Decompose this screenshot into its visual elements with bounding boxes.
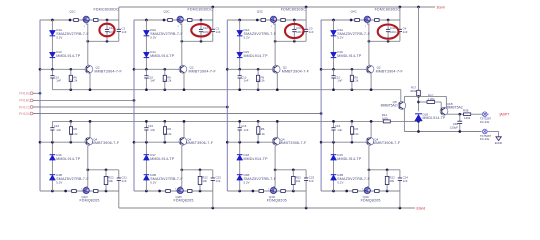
capacitor Cb top block 2 [211, 29, 215, 31]
svg-text:R6: R6 [355, 127, 359, 131]
resistor R26 block 1 [70, 121, 72, 126]
junction node B [417, 101, 420, 104]
svg-text:1nF: 1nF [337, 128, 342, 132]
junction 1 [51, 68, 54, 71]
wire cap box bottom 4 [369, 40, 400, 42]
capacitor Ca top block 3 (highlighted) [293, 20, 295, 29]
wire cap box bottom 2 [182, 40, 213, 42]
svg-text:100n: 100n [390, 30, 397, 34]
junction 3 [257, 141, 260, 144]
wire diode column bottom 4 [333, 142, 335, 155]
junction cap Ca top 1 [106, 19, 109, 22]
testpoint TP2 [483, 129, 489, 134]
wire emitter vertical top 1 [89, 73, 91, 90]
junction base wire bottom block 3 [226, 141, 229, 144]
wire base top block 1 [40, 68, 87, 70]
svg-text:MMDL914-TP: MMDL914-TP [56, 54, 81, 58]
diode D3A zener SMAZ5V2 [237, 30, 243, 35]
junction upper rail C10 3 [238, 88, 241, 91]
junction emitter on rail 4 [370, 88, 373, 91]
capacitor C10 block 2 [145, 69, 147, 75]
junction 1 [51, 190, 54, 193]
capacitor C10 block 4 [333, 69, 335, 75]
resistor R14 [383, 120, 390, 123]
resistor R22 bottom block 2 [199, 170, 201, 177]
junction 2 [145, 141, 148, 144]
wire diode column bottom 2 [145, 142, 147, 155]
svg-text:56.2k: 56.2k [70, 79, 78, 83]
junction rail R6 1 [69, 88, 72, 91]
svg-text:DC-49s: DC-49s [480, 137, 490, 141]
diode D18 MMDL914 [415, 114, 423, 121]
resistor R26 block 3 [257, 121, 259, 126]
junction C48 top [458, 113, 461, 116]
wire source rail bottom block 3 [227, 190, 306, 192]
svg-text:R6: R6 [261, 127, 265, 131]
resistor R26 block 2 [164, 121, 166, 126]
junction gate crossing 3 [274, 40, 277, 43]
diode D1B zener bottom [49, 175, 55, 180]
transistor Q2 NPN MMBT3904 block 3 [272, 65, 280, 73]
capacitor Ca top block 4 (highlighted) [387, 20, 389, 29]
svg-text:1nF: 1nF [244, 79, 249, 83]
junction 1 [64, 190, 67, 193]
diode D13 MMDL914 [49, 52, 55, 57]
resistor series left bottom 1 [72, 190, 77, 193]
junction rail R6 4 [351, 88, 354, 91]
transistor Q4 PNP MMBT3906 block 4 [366, 137, 374, 145]
junction base wire bottom block 4 [320, 141, 323, 144]
svg-text:MMDL914-TP: MMDL914-TP [423, 116, 446, 120]
transistor Q1D NMOS FDMQ8205 [83, 187, 89, 193]
svg-text:1nF: 1nF [56, 128, 61, 132]
svg-text:1nF: 1nF [337, 79, 342, 83]
junction diode col 2 [145, 19, 148, 22]
capacitor Ca top block 1 (highlighted) [106, 20, 108, 29]
wire collector/gate vertical bottom 2 [181, 146, 183, 187]
capacitor C10 block 1 [51, 69, 53, 75]
resistor R67 [427, 101, 435, 104]
wire drain rail top block 1 [40, 19, 119, 21]
svg-text:PH1B1: PH1B1 [19, 99, 30, 103]
svg-text:10k: 10k [389, 179, 394, 183]
wire emitter vertical top 3 [276, 73, 278, 90]
junction base wire top block 1 [39, 68, 42, 71]
wire source rail bottom block 2 [134, 190, 213, 192]
svg-text:3Gvh: 3Gvh [437, 5, 445, 9]
port PH1C1 [30, 106, 35, 109]
wire collector/gate vertical bottom 4 [368, 146, 370, 187]
svg-text:10k: 10k [108, 179, 113, 183]
junction emitter on lower rail 1 [89, 120, 92, 123]
junction Ca bottom 1 [106, 40, 109, 43]
wire node B to R67 [419, 101, 428, 103]
wire drain rail top block 2 [134, 19, 213, 21]
wire mosfet gate stub 2 [179, 23, 181, 25]
capacitor Cb bottom block 2 [211, 178, 215, 180]
transistor Q4 PNP MMBT3906 block 2 [179, 137, 187, 145]
svg-text:MMBT3906-7-F: MMBT3906-7-F [186, 141, 214, 145]
diode D4A zener SMAZ5V2 [331, 30, 337, 35]
svg-text:MMBT5A2: MMBT5A2 [381, 104, 397, 108]
wire base bottom block 2 [134, 141, 181, 143]
svg-text:MMBT3906-7-F: MMBT3906-7-F [279, 141, 307, 145]
wire rail corner to Q8 base [400, 90, 402, 102]
diode D4B zener bottom [331, 175, 337, 180]
wire mosfet gate stub bottom 4 [366, 186, 368, 189]
junction 2 [145, 68, 148, 71]
diode D1A zener SMAZ5V2 [49, 30, 55, 35]
wire TP2 to ground [489, 131, 499, 133]
wire gate/collector vertical 1 [87, 23, 89, 64]
capacitor Cb bottom block 3 [304, 178, 308, 180]
junction 3 [292, 168, 295, 171]
junction Ca bottom block 2 [199, 190, 202, 193]
svg-text:56.2k: 56.2k [70, 132, 78, 136]
transistor Q1B NPN MMBT5A2 [440, 107, 448, 115]
junction on VCC bus [211, 6, 214, 9]
red highlight ellipse 4 [378, 25, 399, 39]
svg-text:R6: R6 [73, 127, 77, 131]
junction gate crossing bottom 1 [86, 168, 89, 171]
wire diode column top 4 [333, 20, 335, 31]
svg-text:FDMQ8205: FDMQ8205 [80, 199, 100, 203]
capacitor Ca top block 2 (highlighted) [200, 20, 202, 29]
junction row 3 [226, 106, 229, 109]
diode D14 MMDL914 [143, 52, 149, 57]
junction cap Ca top 2 [200, 19, 203, 22]
wire left vertical column 3 [226, 20, 228, 191]
junction upper rail C10 2 [145, 88, 148, 91]
wire gate/collector vertical 2 [181, 23, 183, 64]
wire Q1B emitter [446, 113, 463, 115]
junction 3 [257, 68, 260, 71]
junction gate crossing 1 [86, 40, 89, 43]
svg-text:100n: 100n [296, 30, 303, 34]
wire drain rail top block 3 [227, 19, 306, 21]
capacitor C10 block 3 [239, 69, 241, 75]
junction 1 [105, 168, 108, 171]
svg-text:MMBT3904-7-F: MMBT3904-7-F [95, 69, 123, 73]
net rail lower (base feed) [52, 120, 383, 122]
junction upper rail C10 4 [332, 88, 335, 91]
junction lower rail R26 3 [257, 120, 260, 123]
resistor R6 block 2 [164, 69, 166, 75]
resistor R6 block 3 [257, 69, 259, 75]
junction base wire top block 3 [226, 68, 229, 71]
red highlight ellipse 2 [191, 24, 210, 36]
svg-text:Q3C: Q3C [257, 9, 264, 13]
junction 2 [158, 190, 161, 193]
junction 1 [69, 68, 72, 71]
transistor Q4D NMOS FDMQ8205 [364, 187, 371, 193]
junction lower rail C16 2 [145, 120, 148, 123]
wire collector/gate vertical bottom 3 [274, 146, 276, 187]
junction 3 [238, 68, 241, 71]
junction base wire bottom block 1 [39, 141, 42, 144]
svg-text:56.2k: 56.2k [258, 132, 266, 136]
svg-text:120pF: 120pF [450, 125, 458, 129]
junction emitter on lower rail 3 [276, 120, 279, 123]
resistor series left Q2C [168, 19, 173, 22]
red highlight ellipse 3 [285, 24, 304, 38]
wire cap box top bottom-block 4 [369, 169, 400, 171]
capacitor C16 block 1 [51, 121, 53, 127]
junction gate crossing bottom 3 [274, 168, 277, 171]
junction base wire top block 2 [133, 68, 136, 71]
svg-text:EGnd: EGnd [417, 206, 426, 210]
diode D16 MMDL914 [331, 52, 337, 57]
junction D18 bottom [417, 130, 420, 133]
svg-text:MMDL914-TP: MMDL914-TP [244, 54, 269, 58]
junction on ground bus [399, 207, 402, 210]
junction row 4 [320, 112, 323, 115]
wire port row 3 [33, 106, 227, 108]
resistor series left Q4C [355, 19, 360, 22]
transistor Q1 PMOS FDMC8030DC [83, 16, 89, 22]
svg-text:1nF: 1nF [309, 30, 314, 34]
power bus VCC (top) [119, 6, 435, 8]
transistor Q2D NMOS FDMQ8205 [177, 187, 183, 193]
capacitor Cb top block 3 [304, 29, 308, 31]
transistor Q2 NPN MMBT3904 block 1 [85, 65, 93, 73]
svg-text:5.2V: 5.2V [337, 180, 343, 184]
junction Ca bottom 4 [387, 40, 390, 43]
svg-text:PH1A1: PH1A1 [19, 92, 30, 96]
capacitor Cb top block 4 [398, 29, 402, 31]
svg-text:56.2k: 56.2k [164, 132, 172, 136]
svg-text:MMDL914-TP: MMDL914-TP [337, 54, 362, 58]
ground symbol [496, 137, 501, 141]
junction 4 [332, 190, 335, 193]
svg-text:5.2V: 5.2V [337, 35, 343, 39]
wire source rail bottom block 1 [40, 190, 119, 192]
wire emitter vertical top 2 [183, 73, 185, 90]
svg-text:1nF: 1nF [244, 128, 249, 132]
wire base top block 4 [321, 68, 368, 70]
transistor Q4 PNP MMBT3906 block 1 [85, 137, 93, 145]
junction 4 [345, 190, 348, 193]
svg-text:MMBT3904-7-F: MMBT3904-7-F [376, 69, 404, 73]
capacitor C48 [459, 114, 461, 121]
capacitor Cb top block 1 [117, 29, 121, 31]
junction lower rail R26 2 [163, 120, 166, 123]
junction emitter on lower rail 4 [370, 120, 373, 123]
svg-text:1nF: 1nF [216, 30, 221, 34]
resistor series right 3 [281, 19, 286, 22]
wire gate/collector vertical 4 [368, 23, 370, 64]
wire left vertical column 1 [39, 20, 41, 191]
wire port row 1 [33, 92, 40, 94]
diode D2B zener bottom [143, 175, 149, 180]
resistor series left Q3C [261, 19, 266, 22]
junction 4 [351, 68, 354, 71]
junction Ca bottom 3 [293, 40, 296, 43]
wire mosfet gate stub bottom 1 [85, 186, 87, 189]
capacitor Cb bottom block 4 [398, 178, 402, 180]
svg-text:FDMQ8205: FDMQ8205 [174, 199, 194, 203]
svg-text:5.2V: 5.2V [244, 35, 250, 39]
svg-text:Q1C: Q1C [70, 9, 77, 13]
svg-text:5.2V: 5.2V [244, 180, 250, 184]
resistor R38 [464, 113, 471, 116]
wire port row 2 [33, 99, 134, 101]
wire emitter vertical bottom 1 [89, 121, 91, 137]
svg-text:140k: 140k [464, 116, 471, 120]
wire mosfet gate stub 3 [273, 23, 275, 25]
transistor Q4 PMOS FDMC8030DC [364, 16, 371, 22]
wire left vertical column 2 [133, 20, 135, 191]
wire cap box bottom 1 [88, 40, 119, 42]
junction node A [417, 95, 420, 98]
wire cap box bottom 3 [275, 40, 306, 42]
junction Ca bottom block 1 [105, 190, 108, 193]
wire R38 to TP1 [471, 113, 483, 115]
svg-text:5.2V: 5.2V [150, 35, 156, 39]
svg-text:56.2k: 56.2k [258, 79, 266, 83]
svg-text:Q2C: Q2C [164, 9, 171, 13]
resistor R26 block 4 [351, 121, 353, 126]
wire R17/D18 vertical [418, 7, 420, 90]
svg-text:1nF: 1nF [56, 79, 61, 83]
svg-text:10k: 10k [202, 179, 207, 183]
junction lower rail R26 1 [69, 120, 72, 123]
diode D17 MMDL914 bottom [143, 155, 149, 160]
junction emitter on rail 2 [183, 88, 186, 91]
red highlight ellipse 1 [99, 24, 114, 37]
wire source rail bottom block 4 [321, 190, 400, 192]
svg-text:DC-49s: DC-49s [480, 120, 490, 124]
svg-text:FDMQ8205: FDMQ8205 [267, 199, 287, 203]
svg-text:56.2k: 56.2k [351, 79, 359, 83]
junction 2 [163, 68, 166, 71]
resistor series right 2 [188, 19, 193, 22]
junction 1 [69, 19, 72, 22]
junction 3 [256, 19, 259, 22]
resistor series left bottom 2 [166, 190, 171, 193]
transistor Q3 PMOS FDMC8030DC [270, 16, 277, 22]
svg-text:R38: R38 [463, 108, 469, 112]
wire emitter vertical bottom 4 [370, 121, 372, 137]
resistor R22 bottom block 4 [386, 170, 388, 177]
wire emitter vertical bottom 3 [276, 121, 278, 137]
svg-text:107k: 107k [382, 116, 389, 120]
svg-text:FDMC8030DC: FDMC8030DC [188, 7, 214, 11]
wire base bottom block 4 [321, 141, 368, 143]
svg-text:1nF: 1nF [122, 30, 127, 34]
junction base wire bottom block 2 [133, 141, 136, 144]
svg-text:5.2V: 5.2V [56, 180, 62, 184]
wire diode column bottom 1 [51, 142, 53, 155]
diode D15 MMDL914 [237, 52, 243, 57]
wire base bottom block 1 [40, 141, 87, 143]
junction Ca bottom 2 [200, 40, 203, 43]
wire base top block 2 [134, 68, 181, 70]
junction cap Ca top 3 [293, 19, 296, 22]
transistor Q8 NPN MMBT5A2 [398, 102, 406, 110]
junction gate crossing 2 [180, 40, 183, 43]
svg-text:MMDL914-TP: MMDL914-TP [150, 54, 175, 58]
junction base wire top block 4 [320, 68, 323, 71]
junction on ground bus [305, 207, 308, 210]
wire base bottom block 3 [227, 141, 274, 143]
junction row 1 [39, 92, 42, 95]
wire left vertical column 4 [320, 20, 322, 191]
resistor series right bottom 3 [281, 190, 286, 193]
svg-text:EGND: EGND [495, 141, 503, 145]
svg-text:1nF: 1nF [309, 179, 314, 183]
svg-text:1.30k: 1.30k [428, 97, 436, 101]
junction rail R6 2 [163, 88, 166, 91]
net rail upper (emitter return) [52, 89, 400, 91]
wire diode column bottom 3 [239, 142, 241, 155]
capacitor C16 block 3 [239, 121, 241, 127]
wire cap box top bottom-block 2 [182, 169, 213, 171]
junction Ca bottom block 3 [292, 190, 295, 193]
wire emitter vertical top 4 [370, 73, 372, 90]
port PH1D1 [30, 112, 35, 115]
junction lower rail R26 4 [351, 120, 354, 123]
wire right edge vertical bottom 1 [118, 170, 120, 178]
junction C48 bottom [458, 130, 461, 133]
resistor series left Q1C [74, 19, 79, 22]
junction 3 [238, 141, 241, 144]
svg-text:MMBT5A2: MMBT5A2 [447, 106, 463, 110]
svg-text:MMBT3904-7-F: MMBT3904-7-F [282, 69, 310, 73]
junction diode col 4 [332, 19, 335, 22]
svg-text:MMBT3904-7-F: MMBT3904-7-F [189, 69, 217, 73]
port PH1A1 [30, 92, 35, 95]
junction 2 [163, 141, 166, 144]
capacitor C16 block 4 [333, 121, 335, 127]
svg-text:MMDL914-TP: MMDL914-TP [337, 157, 362, 161]
junction 1 [69, 141, 72, 144]
resistor series right bottom 4 [375, 190, 380, 193]
junction 3 [238, 190, 241, 193]
wire right edge vertical top 2 [212, 7, 214, 29]
svg-text:MMBT3906-7-F: MMBT3906-7-F [373, 141, 401, 145]
transistor Q2 NPN MMBT3904 block 2 [179, 65, 187, 73]
svg-text:5.2V: 5.2V [150, 180, 156, 184]
diode D3B zener bottom [237, 175, 243, 180]
junction diode col 1 [51, 19, 54, 22]
resistor R6 block 4 [351, 69, 353, 75]
svg-text:Q4C: Q4C [351, 9, 358, 13]
junction 4 [386, 168, 389, 171]
svg-text:5.2V: 5.2V [56, 35, 62, 39]
svg-text:MMDL914-TP: MMDL914-TP [244, 157, 269, 161]
wire right edge vertical top 1 [118, 7, 120, 29]
wire cap box top bottom-block 3 [275, 169, 306, 171]
resistor R6 block 1 [70, 69, 72, 75]
svg-text:10k: 10k [296, 179, 301, 183]
wire port row 4 [33, 113, 321, 115]
resistor series right bottom 2 [188, 190, 193, 193]
resistor series right 4 [375, 19, 380, 22]
wire diode column top 2 [145, 20, 147, 31]
transistor Q3D NMOS FDMQ8205 [270, 187, 277, 193]
junction lower rail C16 4 [332, 120, 335, 123]
wire mosfet gate stub 4 [366, 23, 368, 25]
wire mosfet gate stub bottom 2 [179, 186, 181, 189]
junction on VCC bus [417, 6, 420, 9]
junction on VCC bus [305, 6, 308, 9]
svg-text:FDMC8030DC: FDMC8030DC [94, 7, 120, 11]
svg-text:56.2k: 56.2k [164, 79, 172, 83]
wire right edge vertical bottom 4 [399, 170, 401, 178]
wire right edge vertical top 4 [399, 7, 401, 29]
junction 2 [199, 168, 202, 171]
